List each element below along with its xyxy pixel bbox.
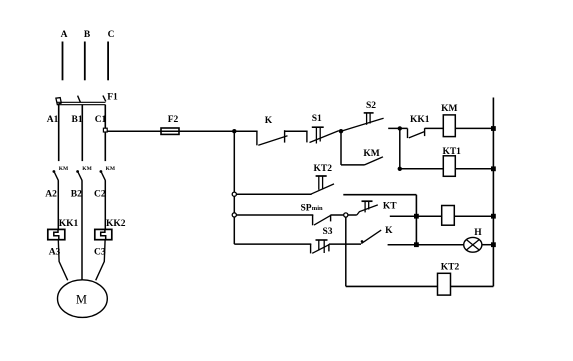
contact K (second, NO) [361,240,364,243]
wire phase A incoming [62,42,64,81]
svg-text:F1: F1 [107,93,118,103]
svg-text:KK2: KK2 [106,219,126,229]
wire SPmin to terminal [331,214,344,216]
svg-text:K: K [385,226,393,236]
svg-text:min: min [312,205,323,212]
wire S1 node down to KM aux contact [340,131,342,165]
wire node after S2 down to KT1 row [399,128,401,168]
wire S3 to contact K [329,243,361,245]
wire row4 to S3 [234,243,311,245]
junction rail/KT row [491,214,496,219]
svg-text:C2: C2 [94,190,106,200]
wire junction to coil KT [416,215,441,217]
node C1 tap terminal [103,128,107,132]
wire C1 [104,105,106,161]
terminal circle KT branch [344,213,348,217]
lamp H [464,237,482,252]
switch F1 pole B blade [78,96,81,103]
pushbutton S2 actuator [364,112,374,114]
junction rail/KT1 row [491,166,496,171]
wire right rail [492,98,494,287]
svg-text:F2: F2 [168,115,179,125]
contact K (relay K, NO) [256,131,258,145]
coil KT2 [438,273,451,295]
junction KT row [414,214,419,219]
svg-text:KM: KM [82,166,92,172]
wire KT output to junction [390,215,417,217]
svg-text:SP: SP [300,203,311,213]
wire S2 output [388,127,407,129]
pushbutton S2 (NC) blade [341,118,384,131]
wire contact K output [388,244,417,246]
switch F1 linking bar (double line) [57,101,106,103]
contact KK1 (thermal, NC) [407,128,409,138]
coil KT1 [443,156,455,177]
contact KT2 (time delayed) [311,184,335,194]
svg-text:S3: S3 [322,227,332,237]
svg-text:KT2: KT2 [314,164,333,174]
svg-text:B: B [84,30,91,40]
wire coil KT1 to right rail [455,168,493,170]
svg-text:KK1: KK1 [410,115,430,125]
junction: S1 output node [339,129,343,133]
junction rail/lamp row [491,242,496,247]
wire C2 [104,180,106,229]
wire A3 to motor [58,240,67,280]
terminal circle row2 [232,192,236,196]
svg-text:KM: KM [441,104,457,114]
svg-text:M: M [76,293,87,307]
svg-text:KM: KM [363,149,379,159]
switch F1 pole C blade [103,96,106,102]
wire B2 (to motor) [81,180,83,279]
thermal relay KK1 heater [48,229,65,239]
svg-text:KT2: KT2 [441,262,460,272]
switch F1 pole A blade (handle hook) [56,98,61,105]
contactor KM main contact B [76,170,79,173]
svg-text:KT1: KT1 [442,147,461,157]
svg-text:C1: C1 [95,115,107,125]
junction: node after S2 [398,126,402,130]
wire row2 to contact KT2 [236,193,311,195]
wire row3 to contact SPmin [236,214,313,216]
svg-text:KM: KM [59,166,69,172]
wire top rail to contact K [234,130,257,132]
svg-text:KT: KT [383,202,397,212]
svg-text:B2: B2 [71,190,82,200]
wire A1 [58,105,60,161]
wire lamp to right rail [482,244,494,246]
wire coil KM to right rail [455,127,493,129]
svg-text:S2: S2 [366,101,376,111]
wire junction to lamp H [416,244,463,246]
wire phase B incoming [84,42,86,81]
svg-text:K: K [265,116,273,126]
pushbutton S1 (NO) [306,131,308,142]
wire phase C incoming [107,42,109,81]
contactor KM main contact C [100,170,103,173]
pushbutton S3 (NO) [310,244,312,253]
junction KT1 row [398,167,402,171]
junction lamp row [414,242,419,247]
wire KK1 to coil KM [425,127,444,129]
svg-text:KM: KM [106,166,116,172]
svg-text:S1: S1 [312,114,322,124]
wire row2 output long [343,194,416,196]
wire coil KT to right rail [454,215,493,217]
svg-text:C: C [108,30,115,40]
wire corner down to KT/lamp rows [415,195,417,245]
junction: control tap [232,129,236,133]
wire C1 tap to control circuit [107,130,234,132]
contact SPmin (pressure switch) [312,215,314,225]
junction rail/KM row [491,126,496,131]
svg-text:A2: A2 [45,190,57,200]
wire B1 [81,105,83,161]
thermal relay KK2 heater [95,229,112,239]
wire A2 [57,180,59,229]
wire KT2 coil row left [346,285,438,287]
wire to coil KT1 [400,168,444,170]
svg-text:KK1: KK1 [59,219,79,229]
wire left control rail [233,131,235,244]
svg-text:H: H [474,228,482,238]
wire KT2 coil row right [451,285,494,287]
wire C3 to motor [96,240,105,280]
terminal circle row3 [232,213,236,217]
svg-text:B1: B1 [72,115,83,125]
fuse F2 [161,128,179,134]
wire rail K to S1 [285,130,308,132]
svg-text:A: A [61,30,68,40]
svg-text:A1: A1 [47,115,59,125]
motor M [58,280,108,318]
wire KT terminal down to KT2 coil row [345,217,347,286]
contact KT (time delayed) [348,214,357,216]
contactor KM main contact A [53,170,56,173]
coil KM [443,115,455,137]
coil KT [442,206,455,226]
contact KM auxiliary (self hold) [341,164,365,166]
